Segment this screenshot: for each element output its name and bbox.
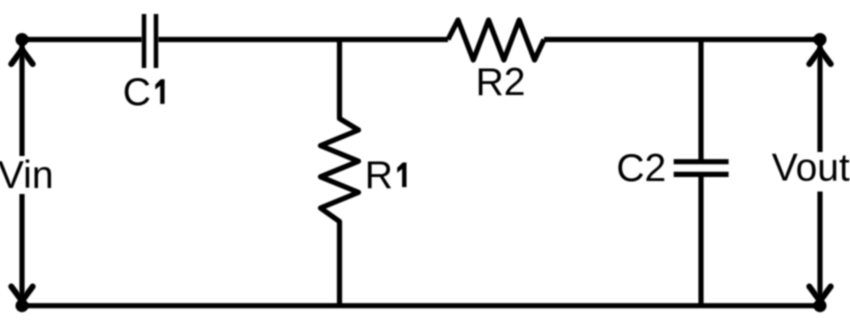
svg-text:R2: R2	[476, 61, 526, 104]
svg-text:C: C	[123, 71, 151, 114]
svg-text:C2: C2	[616, 147, 666, 190]
svg-text:Vin: Vin	[0, 154, 54, 197]
svg-text:R: R	[365, 154, 393, 197]
svg-text:Vout: Vout	[772, 147, 850, 190]
